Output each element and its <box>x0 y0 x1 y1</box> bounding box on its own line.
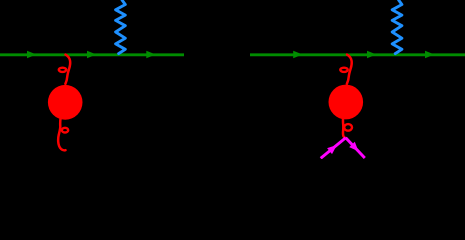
blob (left diagram, red circle) <box>48 85 83 120</box>
arrowhead A4 on right quark line <box>293 51 302 58</box>
gluon curl g4 lower (right diagram): small ring <box>344 124 352 131</box>
gluon curl g2 lower (left diagram): small ring <box>62 128 68 133</box>
gluon curl g3 upper (right diagram): small ring <box>340 68 347 72</box>
gluon curl g1 upper (left diagram): small ring <box>59 68 66 72</box>
gluon curl g3 upper (right diagram): main strand <box>347 55 352 84</box>
arrowhead A3 on left quark line <box>146 51 155 58</box>
arrowhead A1 on left quark line <box>27 51 36 58</box>
quark leg q (right diagram, magenta, lower-left with arrow toward vertex) <box>321 138 346 159</box>
wire: quark fermion line (left diagram) <box>0 53 184 56</box>
arrowhead A5 on right quark line <box>367 51 376 58</box>
photon line gamma (left diagram, blue zigzag) <box>116 0 126 54</box>
arrowhead A6 on right quark line <box>425 51 434 58</box>
arrowhead A2 on left quark line <box>87 51 96 58</box>
blob (right diagram, red circle) <box>329 85 364 120</box>
gluon curl g4 lower (right diagram): main strand <box>343 117 346 138</box>
photon line gamma (right diagram, blue zigzag) <box>392 0 402 54</box>
arrowhead A7 on magenta quark leg (points up-right toward vertex) <box>327 145 337 154</box>
antiquark leg qbar (right diagram, magenta, lower-right with arrow away from vertex) <box>346 138 365 158</box>
gluon curl g2 lower (left diagram): main strand <box>58 118 65 151</box>
arrowhead A8 on magenta antiquark leg (points down-right away from vertex) <box>349 142 358 152</box>
gluon curl g1 upper (left diagram): main strand <box>65 55 70 84</box>
wire: quark fermion line (right diagram) <box>250 53 465 56</box>
